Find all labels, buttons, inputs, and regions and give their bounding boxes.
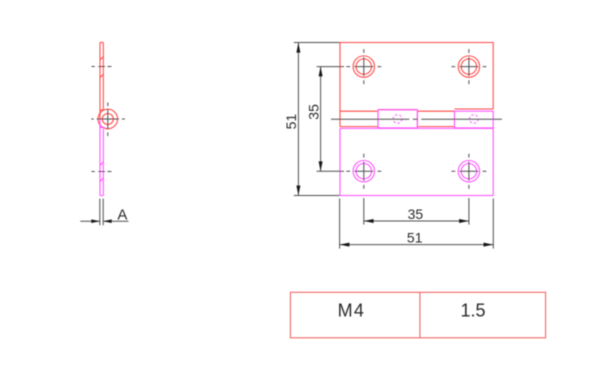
svg-text:A: A xyxy=(117,206,127,223)
svg-text:1.5: 1.5 xyxy=(460,300,485,320)
svg-text:51: 51 xyxy=(407,229,423,245)
svg-text:35: 35 xyxy=(408,206,424,222)
svg-text:51: 51 xyxy=(283,114,299,130)
svg-text:35: 35 xyxy=(306,104,322,120)
svg-text:M4: M4 xyxy=(338,300,366,320)
